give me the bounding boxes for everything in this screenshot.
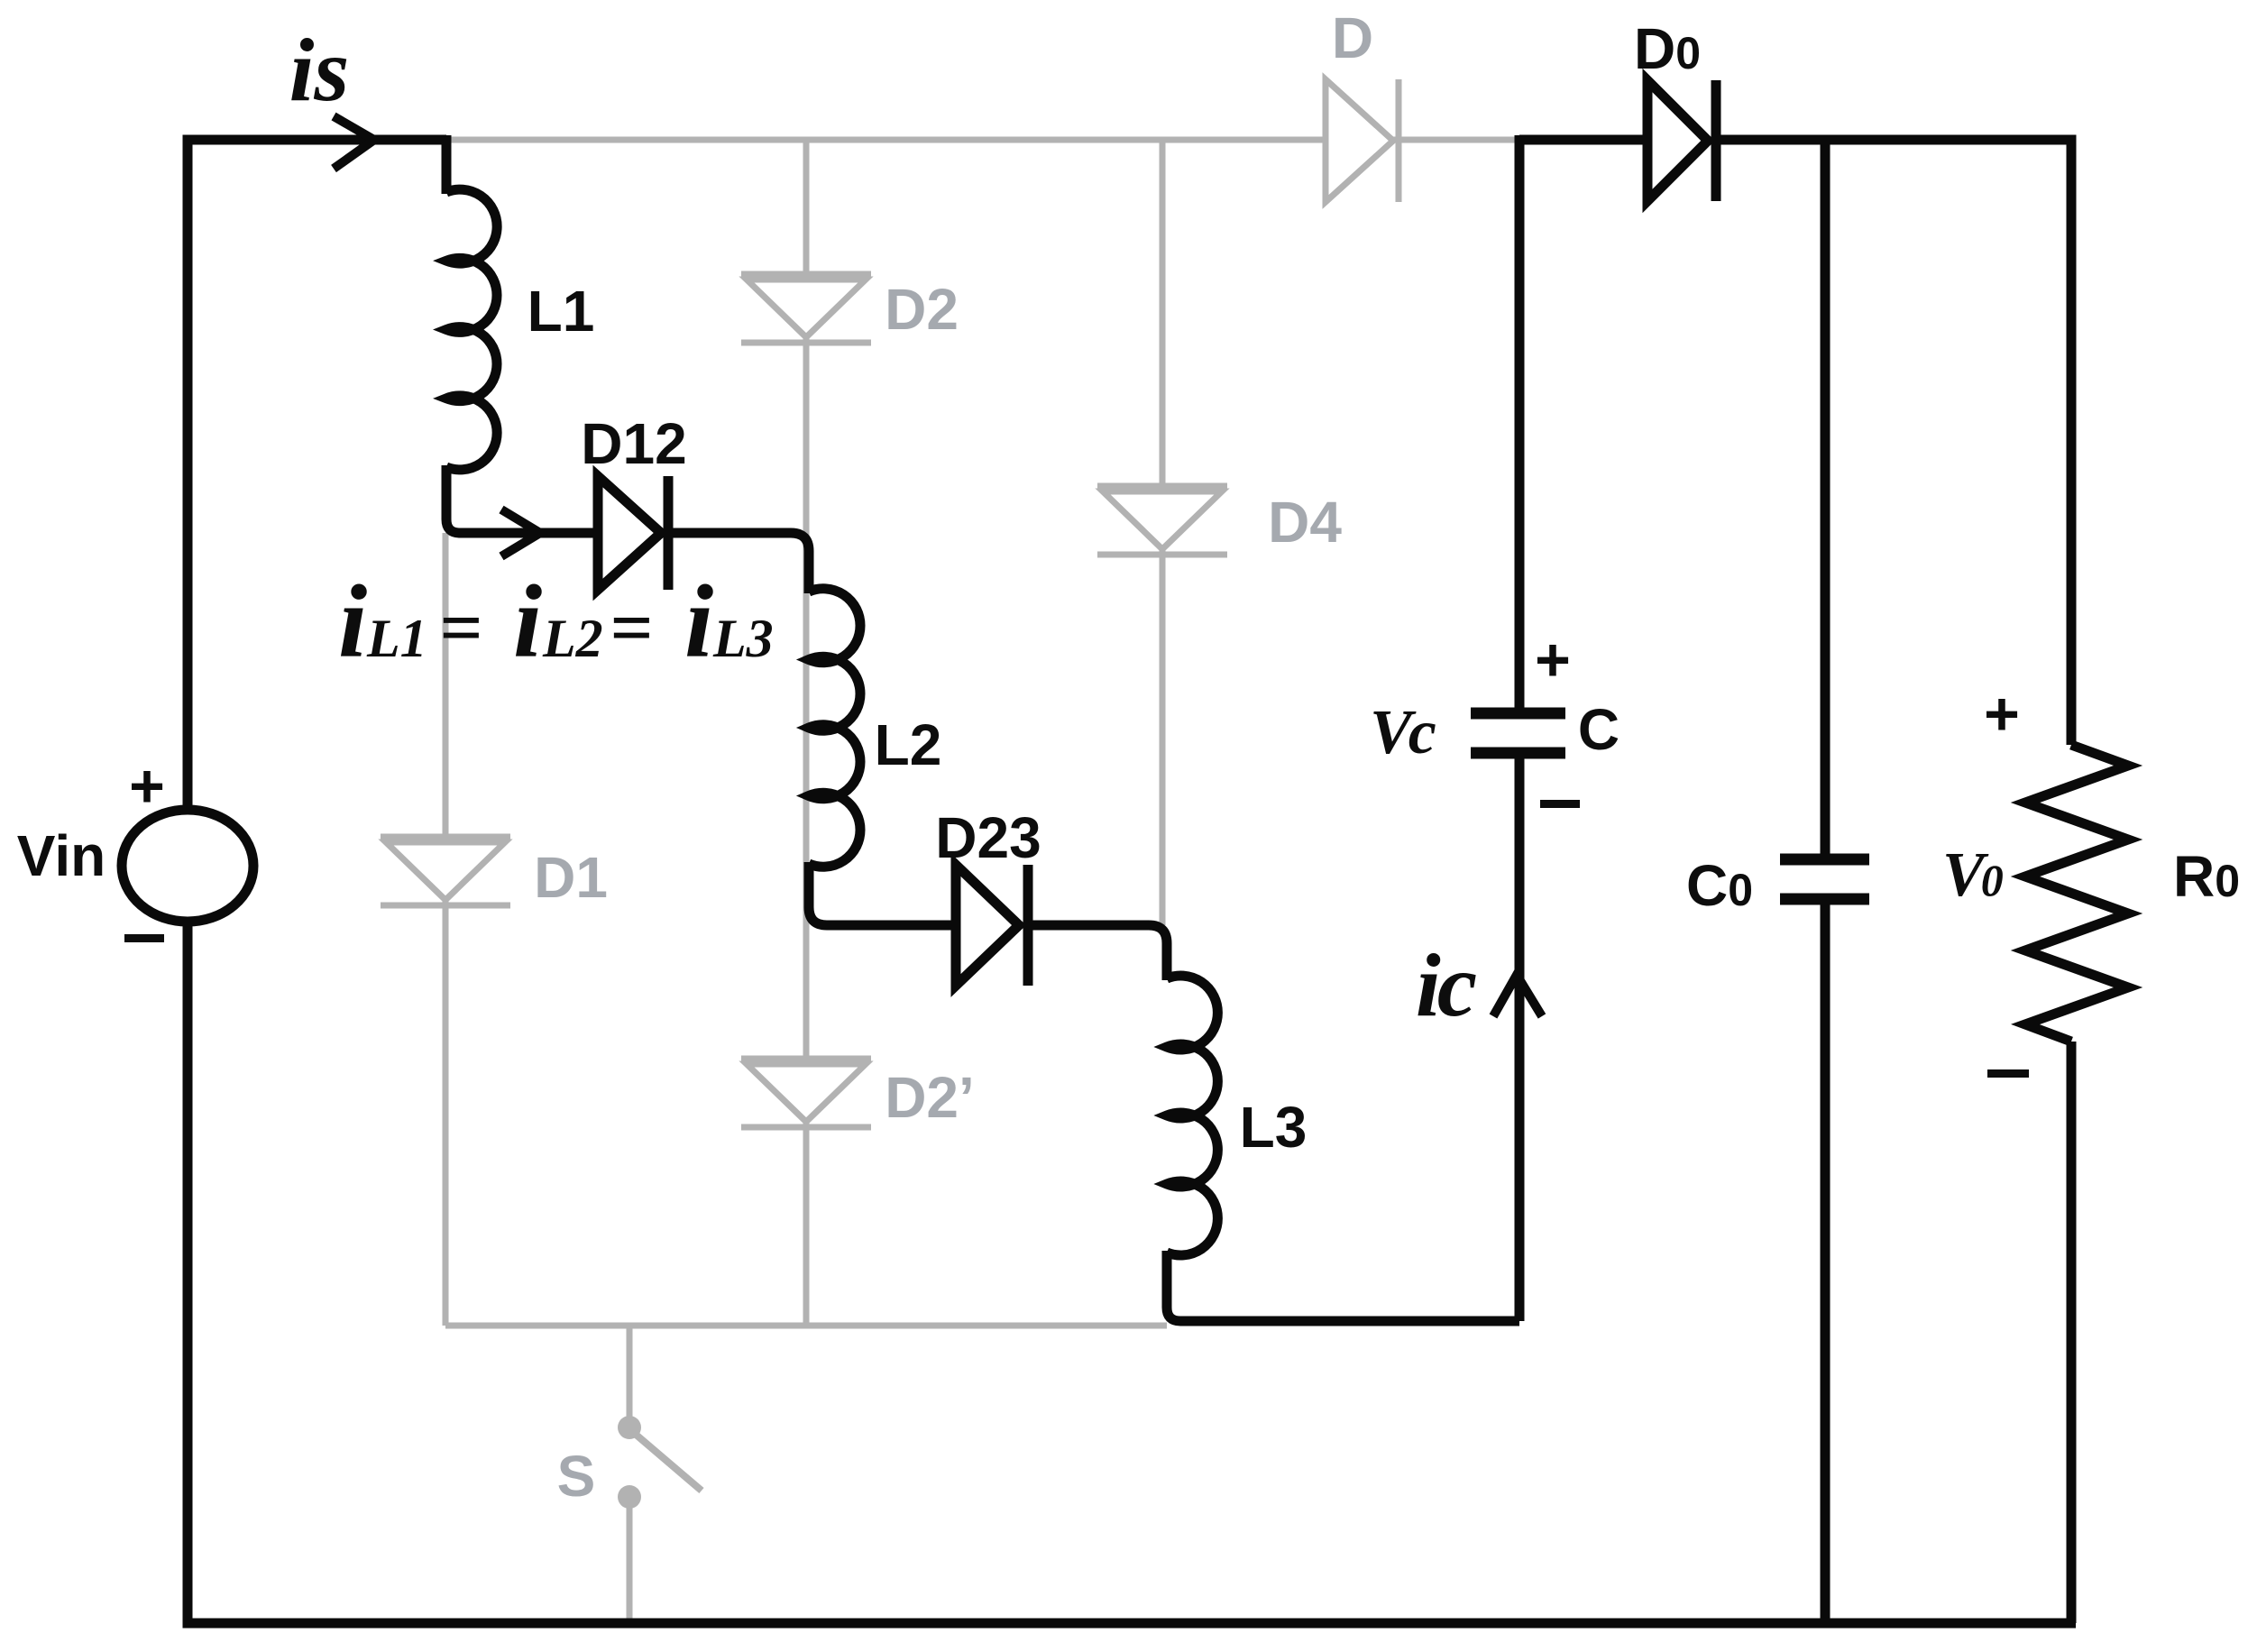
wire L1 top stub: [442, 135, 452, 194]
wire top rail black D0 to R0 corner: [1716, 140, 2071, 745]
capacitor C0: [1780, 859, 1869, 899]
label R0: [2173, 844, 2240, 909]
current arrow ic: [1493, 975, 1542, 1016]
label D2: [885, 277, 959, 342]
label D0: [1634, 16, 1701, 81]
inductor L2: [809, 589, 860, 867]
label D23: [935, 805, 1041, 870]
svg-text:D2: D2: [885, 277, 959, 342]
voltage source Vin: [122, 810, 253, 922]
svg-text:iL1=iL2=iL3: iL1=iL2=iL3: [338, 564, 774, 680]
label minus Vin: [124, 934, 164, 942]
label D1: [534, 845, 608, 910]
label plus R0: [1984, 680, 2020, 748]
svg-text:S: S: [557, 1444, 596, 1509]
label D4: [1268, 490, 1342, 555]
label ic: [1416, 935, 1476, 1035]
svg-text:D4: D4: [1268, 490, 1342, 555]
label V0: [1942, 840, 2004, 910]
label is: [289, 20, 350, 120]
diode D1: [381, 837, 510, 905]
svg-text:+: +: [1984, 680, 2020, 748]
capacitor C: [1471, 713, 1565, 753]
wire gray top rail: [446, 137, 1519, 143]
label plus Vin: [129, 752, 165, 821]
wire L2 to D23: [809, 862, 951, 925]
wire gray D2/D2' branch vertical: [803, 140, 810, 1326]
inductor L1: [446, 189, 497, 470]
wire C branch vertical lower: [1515, 756, 1525, 1321]
svg-text:V0: V0: [1942, 840, 2004, 910]
label minus R0: [1987, 1069, 2029, 1078]
svg-text:Vin: Vin: [17, 823, 106, 888]
wire bottom rail and Vin bottom: [188, 920, 2076, 1623]
label D: [1332, 5, 1373, 70]
svg-text:L1: L1: [528, 279, 595, 344]
svg-text:C0: C0: [1686, 853, 1753, 918]
inductor L3: [1167, 976, 1217, 1255]
current arrow is: [334, 116, 374, 169]
label Vin: [17, 823, 106, 888]
svg-text:D: D: [1332, 5, 1373, 70]
wire D23 to L3: [1028, 925, 1167, 980]
diode D2: [741, 274, 871, 343]
label plus C: [1535, 626, 1571, 694]
svg-text:is: is: [289, 20, 350, 120]
diode D0: [1647, 80, 1716, 201]
label minus C: [1540, 800, 1580, 808]
wire D12 to L2: [668, 533, 809, 593]
label iL1 = iL2 = iL3: [338, 564, 774, 680]
label C: [1578, 697, 1619, 762]
svg-text:L3: L3: [1240, 1095, 1308, 1160]
svg-text:D12: D12: [581, 411, 686, 476]
diode D12: [598, 476, 668, 590]
wire C branch vertical upper: [1515, 135, 1525, 711]
wire R0 bottom: [2067, 1042, 2077, 1623]
svg-text:ic: ic: [1416, 935, 1476, 1035]
svg-text:D1: D1: [534, 845, 608, 910]
wire L1 to D12: [446, 465, 593, 533]
svg-text:D2’: D2’: [885, 1065, 975, 1130]
label C0: [1686, 853, 1753, 918]
wire Vin top to rail and rail to L1 node: [188, 140, 446, 810]
svg-text:R0: R0: [2173, 844, 2240, 909]
svg-text:D23: D23: [935, 805, 1041, 870]
wire gray bottom rail: [445, 1323, 1167, 1329]
label L1: [528, 279, 595, 344]
label S: [557, 1444, 596, 1509]
svg-text:Vc: Vc: [1370, 698, 1436, 767]
wire C0 branch lower: [1821, 902, 1831, 1623]
wire top rail black C branch to D0: [1519, 135, 1652, 145]
label D12: [581, 411, 686, 476]
diode D23: [956, 865, 1028, 986]
wire C0 branch upper: [1821, 140, 1831, 857]
label L3: [1240, 1095, 1308, 1160]
diode D: [1326, 79, 1399, 202]
svg-text:L2: L2: [875, 712, 942, 777]
svg-text:+: +: [1535, 626, 1571, 694]
switch S: [618, 1326, 702, 1623]
svg-text:D0: D0: [1634, 16, 1701, 81]
wire gray D4 branch vertical: [1160, 140, 1166, 925]
current arrow on D12 wire: [501, 509, 540, 556]
resistor R0: [2025, 745, 2128, 1042]
label L2: [875, 712, 942, 777]
label D2': [885, 1065, 975, 1130]
wire L3 to C branch bottom: [1167, 1251, 1519, 1321]
label Vc: [1370, 698, 1436, 767]
diode D4: [1097, 486, 1227, 555]
wire gray D1 branch vertical: [443, 533, 449, 1326]
svg-text:C: C: [1578, 697, 1619, 762]
diode D2': [741, 1059, 871, 1127]
svg-text:+: +: [129, 752, 165, 821]
